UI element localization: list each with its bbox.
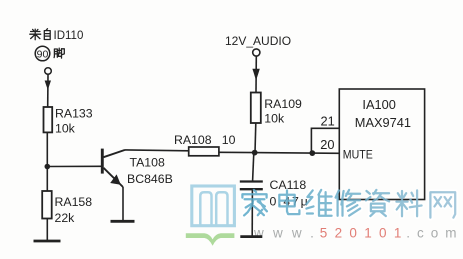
wire junction to base of TA108 (47, 165, 101, 167)
wire with arrow into RA133 (45, 75, 51, 108)
svg-text:.com: .com (406, 226, 463, 241)
node A junction dot (45, 164, 51, 170)
capacitor CA118 (240, 182, 263, 190)
svg-text:22k: 22k (55, 211, 76, 225)
svg-text:MUTE: MUTE (343, 147, 373, 161)
svg-text:RA133: RA133 (55, 106, 93, 120)
svg-text:CA118: CA118 (270, 178, 307, 192)
svg-text:RA158: RA158 (55, 195, 93, 209)
wire emitter to ground (122, 187, 124, 221)
svg-text:20: 20 (320, 137, 334, 152)
watermark logo: open book icon (186, 186, 235, 246)
resistor RA158 (42, 191, 52, 219)
svg-text:RA109: RA109 (264, 97, 302, 111)
wire RA108 to IC pin20 rail (219, 152, 339, 153)
resistor RA109 (251, 93, 261, 124)
resistor RA133 (44, 107, 53, 132)
ground (CA118) (240, 235, 262, 238)
svg-text:12V_AUDIO: 12V_AUDIO (225, 34, 291, 48)
wire CA118 to ground (251, 189, 253, 236)
svg-text:520101: 520101 (320, 226, 409, 241)
wire collector to RA108 (125, 149, 189, 152)
svg-text:BC846B: BC846B (127, 172, 173, 186)
svg-text:90: 90 (37, 48, 49, 60)
svg-text:10k: 10k (55, 121, 76, 135)
transistor Q TA108 BC846B (102, 149, 125, 187)
svg-text:TA108: TA108 (130, 155, 165, 169)
wire with arrow into RA109 (252, 56, 259, 92)
terminal 12V_AUDIO (253, 49, 260, 56)
wire RA133 to RA158 (46, 132, 48, 191)
wire RA109 to rail (254, 123, 257, 153)
ground (left) (34, 240, 61, 243)
watermark url www.520101.com (253, 226, 463, 241)
svg-text:10: 10 (222, 133, 236, 147)
op-amp/IC U IA100 MAX9741 (339, 89, 424, 200)
svg-text:www.: www. (253, 226, 323, 241)
svg-text:IA100: IA100 (362, 97, 395, 112)
wire RA158 to ground (46, 219, 48, 241)
svg-text:MAX9741: MAX9741 (355, 115, 411, 130)
node B junction (RA109/CA118) (252, 150, 258, 156)
ground (emitter) (111, 220, 135, 223)
terminal from ID110 pin 90 (45, 68, 52, 75)
node: 来自ID110 (90) 脚 label (30, 29, 84, 61)
svg-text:RA108: RA108 (174, 133, 212, 147)
svg-text:21: 21 (321, 114, 335, 129)
node C junction (pin21 tie) (309, 150, 315, 156)
resistor RA108 (189, 147, 219, 156)
pin 21 wire (311, 128, 339, 153)
svg-text:10k: 10k (264, 111, 285, 125)
wire junction to CA118 (253, 153, 254, 181)
watermark halo under ink (242, 190, 455, 218)
svg-text:ID110: ID110 (54, 30, 84, 42)
